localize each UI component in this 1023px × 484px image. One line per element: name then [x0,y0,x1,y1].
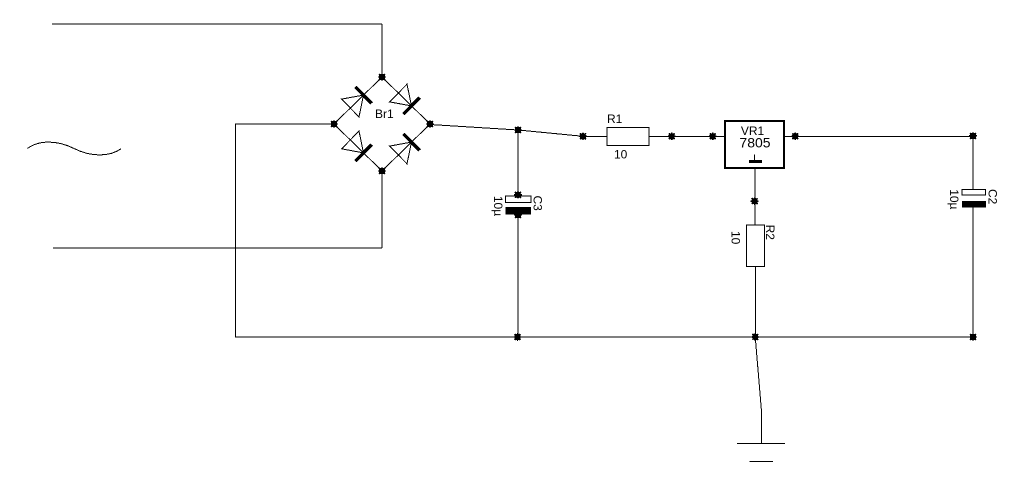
capacitor C2 bottom plate [962,201,986,207]
regulator VR1 body [725,121,784,168]
junction dot: node before VR1 [709,132,717,140]
junction dot: bridge right node [426,120,434,128]
svg-text:R1: R1 [607,112,623,126]
diode D4 bottom-right (bottom node to right node) [390,134,420,164]
wire: node to R1 left terminal [583,135,607,137]
svg-text:Br1: Br1 [375,107,394,121]
bridge Br1 diamond side bottom-right [382,124,430,171]
wire: C2 vertical lower [972,208,974,337]
wire: bottom ground rail [235,336,973,338]
junction dot: VR1 to R2 node [751,197,759,205]
bridge Br1 diamond side top-left [334,77,382,124]
junction dot: rail at C2 [969,333,977,341]
junction dot: rail at C3 [514,333,522,341]
wire: C3 vertical lower to rail [517,215,519,337]
wire: lower AC input horizontal [53,247,382,249]
wire: lower AC input vertical to bridge bottom node [381,171,383,248]
junction dot: bridge top node [378,73,386,81]
junction dot: node before R1 [579,132,587,140]
wire: VR1 output to C2 top corner [784,135,973,137]
wire: C2 vertical upper [972,136,974,189]
wire: C3 junction to R1 node (sloped) [518,130,583,136]
capacitor C3 bottom plate [505,207,531,215]
svg-text:10µ: 10µ [947,189,961,209]
diode D2 top-right (top node to right node) [390,84,420,114]
svg-text:R2: R2 [763,225,777,241]
junction dot: bridge bottom node [378,167,386,175]
junction dot: node after R1 [668,132,676,140]
wire: left vertical down to ground rail [235,124,237,338]
bridge Br1 diamond side bottom-left [334,124,382,171]
wire: R2 bottom to rail [755,266,757,337]
wire: bridge left node to left vertical [235,123,334,125]
junction dot: C3 top junction [514,126,522,134]
svg-text:10: 10 [614,147,628,161]
wire: rail junction to ground (slanted) [755,338,761,444]
capacitor C2 top plate [962,189,985,195]
junction dot: rail at R2/ground [751,333,759,341]
svg-text:C2: C2 [986,189,1000,205]
resistor R1 body [607,127,649,145]
diode D1 top-left (left node to top node) [342,87,372,117]
wire: top AC input vertical drop to bridge top node [381,24,383,77]
svg-text:7805: 7805 [739,135,770,151]
wire: VR1 common pin down to R2 [754,168,756,225]
junction dot: C2 top corner node [969,132,977,140]
ground symbol [737,443,785,461]
AC source squiggle [28,142,122,155]
wire: C3 vertical upper [517,130,519,196]
bridge Br1 diamond side top-right [382,77,430,124]
junction dot: bridge left node [330,120,338,128]
wire: R1 right terminal to VR1 input [649,135,724,137]
junction dot: C3 bottom plate [514,211,522,219]
diode D3 bottom-left (left node to bottom node) [342,131,372,161]
VR1 common pin marker [749,155,762,164]
svg-text:C3: C3 [531,196,545,212]
wire: top AC input horizontal [52,23,382,25]
junction dot: VR1 output node [791,132,799,140]
junction dot: C3 top plate [514,191,522,199]
capacitor C3 top plate [505,196,531,202]
resistor R2 body [746,225,764,266]
svg-text:10µ: 10µ [491,196,505,216]
wire: bridge right node to C3 junction (sloped) [430,125,518,131]
svg-text:10: 10 [729,231,743,245]
